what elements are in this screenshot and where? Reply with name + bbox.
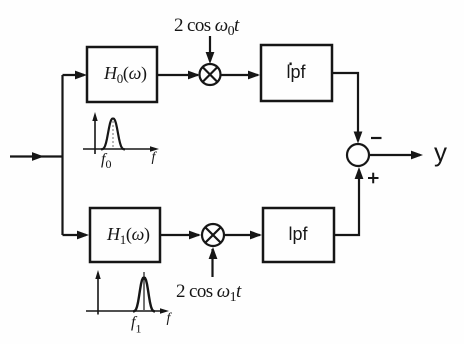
svg-text:y: y — [434, 137, 447, 167]
block lpf0 — [261, 45, 332, 101]
plot1 bell curve — [133, 278, 155, 312]
arrowhead into M1 — [189, 231, 201, 240]
svg-text:f1: f1 — [131, 314, 141, 336]
arrowhead carrier0 into M0 — [206, 52, 215, 64]
wire lpf1 to summer — [334, 170, 359, 235]
svg-text:f: f — [167, 311, 173, 326]
wire bottom branch to H1 — [63, 234, 87, 236]
arrowhead into summer top — [354, 132, 363, 144]
svg-text:lpf: lpf — [286, 62, 306, 82]
arrowhead carrier1 into M1 — [209, 247, 218, 259]
arrowhead into summer bottom — [355, 167, 364, 179]
block lpf1 — [263, 208, 334, 262]
arrowhead into H0 — [75, 71, 87, 80]
wire input — [10, 155, 63, 157]
arrowhead into H1 — [77, 231, 89, 240]
arrowhead input — [32, 152, 44, 161]
wire summer output — [369, 154, 420, 156]
svg-text:f0: f0 — [101, 151, 111, 171]
block H0 — [87, 47, 157, 102]
multiplier M0 — [200, 64, 221, 85]
sign minus at summer — [371, 137, 382, 139]
sign plus at summer — [368, 173, 379, 184]
svg-text:2 cos ω0t: 2 cos ω0t — [174, 15, 240, 39]
plot1 axes — [86, 274, 165, 315]
wire carrier0 down — [209, 36, 211, 61]
plot1 centerline — [143, 272, 145, 310]
block H1 — [90, 208, 160, 262]
wire trunk vertical — [61, 75, 63, 235]
svg-text:2 cos ω1t: 2 cos ω1t — [176, 281, 242, 305]
arrowhead into lpf0 — [248, 71, 260, 80]
wire H1 to multiplier M1 — [160, 234, 199, 236]
multiplier M1 — [202, 224, 224, 246]
plot0 dashed centerline — [112, 121, 114, 148]
wire top branch to H0 — [63, 74, 85, 76]
wire M0 to lpf0 — [221, 74, 259, 76]
scan dot over lpf0 l — [290, 63, 292, 66]
arrowhead into lpf1 — [250, 231, 262, 240]
wire H0 to multiplier M0 — [157, 74, 198, 76]
summer S1 — [347, 144, 369, 166]
arrowhead output — [411, 151, 423, 160]
wire M1 to lpf1 — [224, 234, 260, 236]
svg-text:H1(ω): H1(ω) — [106, 224, 150, 247]
svg-text:f: f — [152, 150, 158, 165]
arrowhead into M0 — [188, 71, 200, 80]
svg-text:H0(ω): H0(ω) — [103, 63, 147, 86]
wire carrier1 up — [211, 249, 213, 277]
plot0 axes — [83, 116, 155, 154]
wire lpf0 to summer — [332, 73, 358, 141]
svg-text:lpf: lpf — [288, 224, 308, 244]
plot0 bell curve — [101, 119, 125, 150]
